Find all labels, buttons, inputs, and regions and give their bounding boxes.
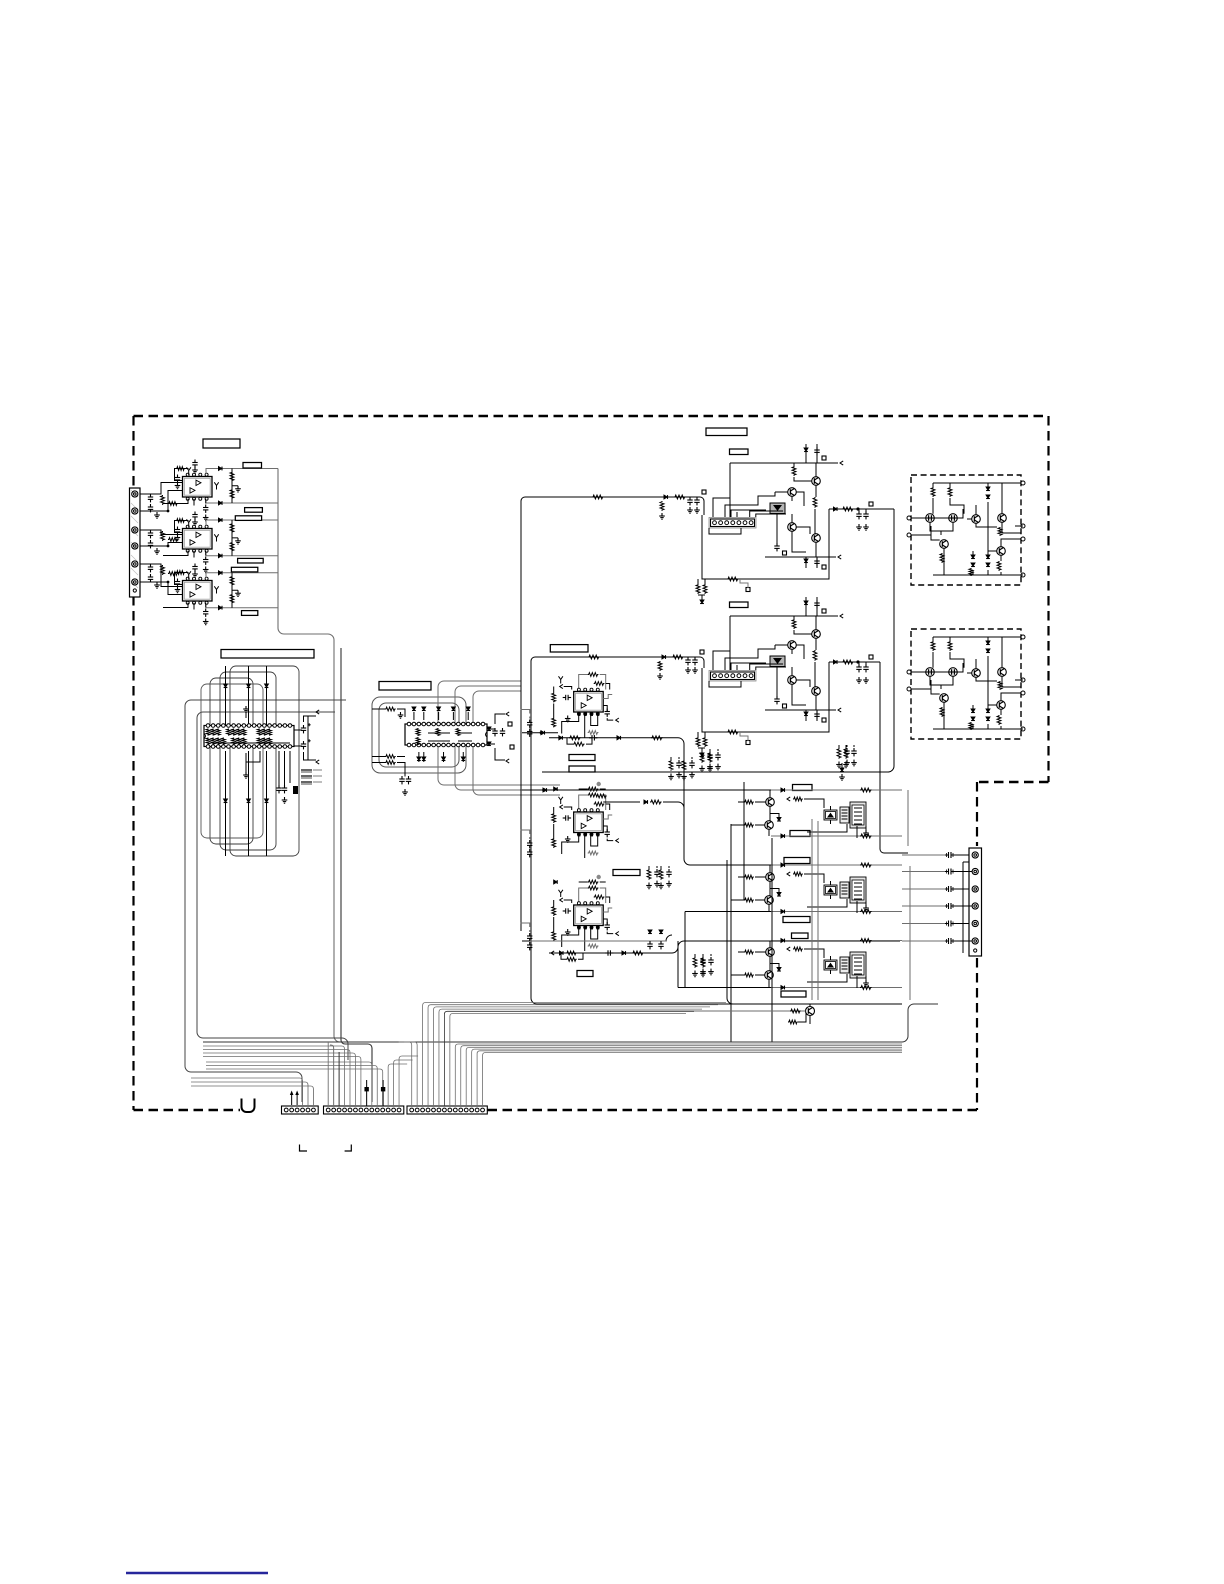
- capacitor C402: [694, 497, 699, 505]
- capacitor C304: [192, 564, 197, 572]
- test point: [510, 745, 514, 749]
- label box: [569, 766, 595, 772]
- resistor R201: [161, 531, 165, 541]
- ground: [175, 587, 181, 593]
- resistor: [237, 738, 241, 745]
- wire: [382, 1080, 384, 1106]
- wire: [743, 782, 745, 900]
- wire: [404, 1042, 417, 1106]
- wire: [266, 666, 268, 726]
- wire: [731, 974, 765, 976]
- diode: [554, 880, 558, 884]
- label box: [730, 602, 749, 608]
- wire loop: [379, 703, 459, 767]
- label box: [781, 991, 806, 997]
- resistor R40122: [594, 682, 605, 686]
- ground: [657, 673, 663, 679]
- wire: [740, 579, 748, 588]
- resistor: [792, 619, 796, 629]
- signal arrow: [616, 839, 619, 843]
- resistor R40320: [588, 886, 599, 890]
- wire: [791, 496, 793, 522]
- resistor: [860, 910, 872, 914]
- diode: [265, 799, 269, 803]
- wire: [829, 508, 894, 510]
- ground: [851, 760, 857, 766]
- resistor R103: [176, 467, 185, 471]
- ground: [175, 483, 181, 489]
- signal arrow: [787, 797, 790, 801]
- wire: [140, 543, 183, 547]
- resistor: [647, 869, 651, 880]
- resistor: [860, 986, 872, 990]
- capacitor C105: [203, 505, 208, 513]
- diode D301: [219, 571, 223, 575]
- diode: [834, 660, 838, 664]
- diode: [442, 757, 446, 761]
- ground: [707, 764, 713, 770]
- wire: [731, 663, 766, 670]
- wire: [525, 497, 704, 515]
- label box: [550, 645, 588, 652]
- wire: [988, 539, 1021, 575]
- wire: [791, 649, 793, 675]
- test point: [702, 490, 706, 494]
- dashed board outline step edge: [977, 781, 1049, 784]
- wire: [225, 751, 227, 856]
- wire: [729, 463, 731, 518]
- wire: [695, 954, 703, 957]
- wire: [203, 1046, 345, 1106]
- wire: [521, 830, 530, 839]
- wire: [231, 573, 233, 608]
- diode: [224, 799, 228, 803]
- resistor R40123: [552, 693, 556, 703]
- junction: [540, 731, 544, 735]
- resistor: [232, 729, 236, 736]
- resistor R432: [632, 951, 644, 955]
- wire: [730, 462, 838, 464]
- transistor Q4021: [812, 630, 821, 639]
- capacitor C40320: [563, 908, 571, 913]
- ground: [700, 760, 704, 766]
- transistor Q604: [806, 1007, 815, 1016]
- diode D404: [662, 655, 666, 659]
- resistor R311: [385, 755, 396, 759]
- resistor: [860, 863, 872, 867]
- capacitor: [856, 511, 861, 519]
- test point: [822, 565, 826, 569]
- resistor R404: [588, 655, 600, 659]
- ground: [839, 774, 845, 780]
- capacitor C211: [301, 739, 311, 749]
- resistor: [790, 1009, 801, 1013]
- resistor R101: [161, 495, 165, 505]
- wire: [232, 537, 238, 539]
- diode: [422, 757, 426, 761]
- ground: [203, 515, 209, 521]
- resistor R405: [672, 655, 684, 659]
- pin 1 of CN101: [132, 491, 138, 497]
- transistor Q6021: [766, 873, 775, 882]
- wire: [461, 1046, 902, 1106]
- ground: [659, 513, 665, 519]
- wire: [729, 616, 731, 671]
- op-amp IC402: [574, 809, 604, 836]
- capacitor: [844, 748, 849, 756]
- resistor: [416, 737, 420, 745]
- resistor: [416, 728, 420, 736]
- wire: [399, 1042, 412, 1106]
- diode: [971, 709, 975, 713]
- wire: [804, 874, 824, 883]
- wire: [911, 671, 949, 673]
- ground: [235, 486, 241, 492]
- ground: [681, 774, 687, 780]
- test point: [869, 655, 873, 659]
- signal arrow: [787, 872, 790, 876]
- ground: [685, 667, 691, 673]
- diode: [804, 448, 808, 452]
- diode: [781, 834, 785, 838]
- wire: [600, 795, 606, 810]
- junction: [167, 545, 170, 548]
- dashed board outline top edge: [134, 415, 1049, 418]
- wire: [771, 987, 902, 989]
- diode D401: [664, 495, 668, 499]
- wire: [771, 838, 773, 1042]
- wire: [911, 509, 963, 540]
- wire loop: [372, 697, 466, 773]
- wire: [232, 485, 238, 487]
- capacitor: [851, 748, 856, 756]
- wire: [483, 1053, 902, 1107]
- resistor: [793, 872, 803, 876]
- resistor R303: [176, 571, 185, 575]
- wire: [792, 531, 806, 552]
- resistor: [436, 728, 440, 736]
- op-amp IC201: [183, 525, 213, 552]
- resistor: [211, 738, 215, 745]
- wire: [933, 482, 1021, 484]
- capacitor C104: [192, 460, 197, 468]
- transistor in IC501: [972, 515, 981, 524]
- diode: [777, 893, 781, 897]
- resistor: [216, 729, 220, 736]
- wire: [304, 716, 317, 760]
- resistor R301: [161, 565, 165, 575]
- capacitor C410: [589, 735, 597, 740]
- wire: [902, 940, 945, 942]
- wire: [203, 1057, 361, 1107]
- resistor R40222: [594, 802, 605, 806]
- wire: [811, 819, 813, 1000]
- wire: [902, 888, 945, 890]
- wire: [731, 899, 765, 901]
- antenna mark: [187, 571, 191, 578]
- wire: [366, 1080, 368, 1106]
- wire: [769, 865, 770, 912]
- wire: [955, 854, 970, 856]
- capacitor: [814, 600, 819, 608]
- ground: [203, 619, 209, 625]
- wire: [205, 603, 207, 608]
- wire: [661, 866, 669, 869]
- resistor R312: [385, 761, 396, 765]
- diode: [986, 487, 990, 491]
- capacitor C40121: [527, 720, 532, 728]
- wire: [584, 836, 586, 858]
- wire: [163, 551, 194, 558]
- resistor: [998, 527, 1002, 536]
- label box: [784, 858, 810, 864]
- capacitor: [708, 957, 713, 965]
- wire: [806, 597, 817, 616]
- resistor: [813, 497, 817, 508]
- antenna mark: [187, 519, 191, 526]
- wire: [163, 499, 194, 506]
- wire: [750, 664, 786, 670]
- wire: [709, 681, 741, 687]
- wire: [212, 742, 290, 744]
- ground: [192, 519, 198, 525]
- diode: [452, 707, 456, 711]
- ground: [666, 881, 672, 887]
- wire: [725, 492, 775, 517]
- transistor in IC501: [949, 514, 958, 523]
- pin mark: [578, 713, 581, 716]
- wire: [794, 616, 812, 634]
- resistor R102: [168, 502, 178, 506]
- resistor pack RP1: [301, 770, 312, 772]
- diode: [781, 910, 785, 914]
- ground: [235, 538, 241, 544]
- resistor pack RP3: [301, 782, 312, 784]
- wire: [462, 752, 464, 762]
- wire: [206, 520, 278, 526]
- resistor: [696, 584, 700, 594]
- transistor Q4024: [812, 687, 821, 696]
- wire: [438, 681, 560, 785]
- resistor: [860, 939, 872, 943]
- label box: [243, 463, 262, 469]
- wire: [815, 542, 817, 557]
- resistor: [860, 788, 872, 792]
- resistor: [788, 1020, 798, 1024]
- ground: [707, 766, 713, 772]
- diode: [986, 717, 990, 721]
- wire with arrow: [291, 1093, 293, 1105]
- wire: [206, 1069, 383, 1106]
- wire: [607, 839, 613, 841]
- wire: [817, 821, 819, 1000]
- wire: [206, 1066, 377, 1107]
- label box: [790, 831, 810, 837]
- resistor: [682, 760, 686, 771]
- resistor R40120: [588, 673, 599, 677]
- capacitor C203: [175, 527, 180, 535]
- ground: [804, 440, 808, 446]
- wire: [967, 505, 997, 527]
- resistor: [744, 898, 754, 902]
- terminal: [907, 533, 911, 537]
- diode: [840, 768, 844, 772]
- capacitor C102: [148, 504, 153, 512]
- capacitor: [715, 752, 720, 760]
- ground: [815, 593, 819, 599]
- driver module set U603: [824, 952, 866, 978]
- resistor R304: [230, 576, 234, 586]
- wire: [266, 751, 268, 856]
- resistor: [792, 466, 796, 476]
- wire: [246, 751, 260, 762]
- diode D412: [617, 736, 621, 740]
- wire: [603, 826, 607, 832]
- wire: [713, 651, 730, 670]
- wire: [933, 483, 964, 514]
- pin 1 of CN601: [972, 852, 978, 858]
- resistor: [860, 834, 872, 838]
- resistor: [842, 660, 854, 664]
- wire: [278, 469, 900, 1043]
- wire: [792, 684, 806, 705]
- transistor Q6022: [765, 896, 774, 905]
- wire: [473, 691, 560, 795]
- resistor: [837, 748, 841, 759]
- resistor: [268, 729, 272, 736]
- signal arrow: [840, 461, 843, 465]
- capacitor C204: [192, 512, 197, 520]
- transistor Q4022: [788, 641, 797, 650]
- signal arrow: [551, 951, 554, 955]
- wire: [911, 663, 963, 694]
- wire: [603, 919, 607, 925]
- resistor: [703, 584, 707, 594]
- label box: [613, 870, 640, 876]
- capacitor C40223: [605, 829, 610, 837]
- wire: [205, 551, 207, 556]
- zener diode module: [770, 656, 785, 667]
- wire: [713, 498, 730, 517]
- wire: [902, 923, 945, 925]
- pin mark: [597, 833, 600, 836]
- wire: [804, 799, 824, 808]
- resistor: [696, 737, 700, 747]
- ground: [654, 881, 660, 887]
- wire: [603, 801, 640, 803]
- ground: [154, 548, 160, 554]
- ground: [565, 929, 571, 935]
- transistor in IC501: [998, 514, 1007, 523]
- wire: [206, 573, 278, 578]
- wire: [413, 712, 415, 720]
- wire: [807, 899, 857, 913]
- wire: [579, 795, 588, 810]
- resistor: [727, 577, 739, 581]
- capacitor C40221: [527, 840, 532, 848]
- signal arrow: [838, 708, 841, 712]
- capacitor: [863, 664, 868, 672]
- pin mark: [584, 833, 587, 836]
- resistor R204: [230, 523, 234, 533]
- resistor: [813, 650, 817, 661]
- ground: [863, 830, 869, 836]
- capacitor C40323: [605, 922, 610, 930]
- wire: [775, 644, 788, 646]
- resistor: [931, 641, 935, 651]
- capacitor: [814, 558, 819, 566]
- diode: [461, 757, 465, 761]
- wire: [439, 1009, 702, 1106]
- wire: [730, 824, 732, 1042]
- wire: [806, 710, 817, 721]
- diode: [986, 555, 990, 559]
- capacitor C305: [203, 609, 208, 617]
- op-amp IC403: [574, 902, 604, 929]
- wire: [796, 492, 810, 534]
- wire: [973, 515, 988, 575]
- wire: [330, 1045, 334, 1106]
- capacitor C40222: [527, 849, 532, 857]
- wire: [140, 530, 183, 535]
- diode D421: [644, 800, 648, 804]
- antenna mark: [214, 482, 218, 489]
- wire: [521, 923, 530, 932]
- terminal: [1021, 537, 1025, 541]
- capacitor C432: [658, 941, 663, 949]
- pin 2 of CN601: [972, 868, 978, 874]
- terminal: [1021, 635, 1025, 639]
- diode: [247, 799, 251, 803]
- junction: [597, 782, 601, 786]
- wire: [206, 604, 278, 608]
- capacitor: [676, 760, 681, 768]
- capacitor C40322: [527, 942, 532, 950]
- terminal: [1021, 691, 1025, 695]
- wire: [955, 923, 970, 925]
- wire: [955, 888, 970, 890]
- wire: [248, 666, 250, 726]
- wire: [815, 638, 816, 686]
- pin mark: [597, 926, 600, 929]
- resistor R40125: [588, 731, 599, 735]
- resistor: [456, 728, 460, 736]
- wire: [770, 814, 779, 818]
- resistor: [931, 487, 935, 497]
- wire: [197, 712, 348, 1060]
- capacitor C313: [500, 728, 505, 736]
- wire loop: [201, 684, 263, 838]
- wire: [684, 912, 686, 988]
- resistor R205: [230, 542, 234, 552]
- wire: [444, 1011, 694, 1106]
- capacitor: [689, 760, 694, 768]
- ground: [700, 607, 704, 613]
- wire loop: [220, 672, 276, 850]
- pin 4 of CN601: [972, 903, 978, 909]
- resistor R40324: [552, 931, 556, 941]
- resistor R310: [385, 707, 396, 711]
- diode: [986, 641, 990, 645]
- capacitor C301: [148, 564, 153, 572]
- wire: [943, 702, 945, 729]
- diode: [412, 707, 416, 711]
- wire: [771, 940, 902, 942]
- capacitor C302: [148, 574, 153, 582]
- resistor: [793, 947, 803, 951]
- resistor: [206, 729, 210, 736]
- wire: [775, 491, 788, 493]
